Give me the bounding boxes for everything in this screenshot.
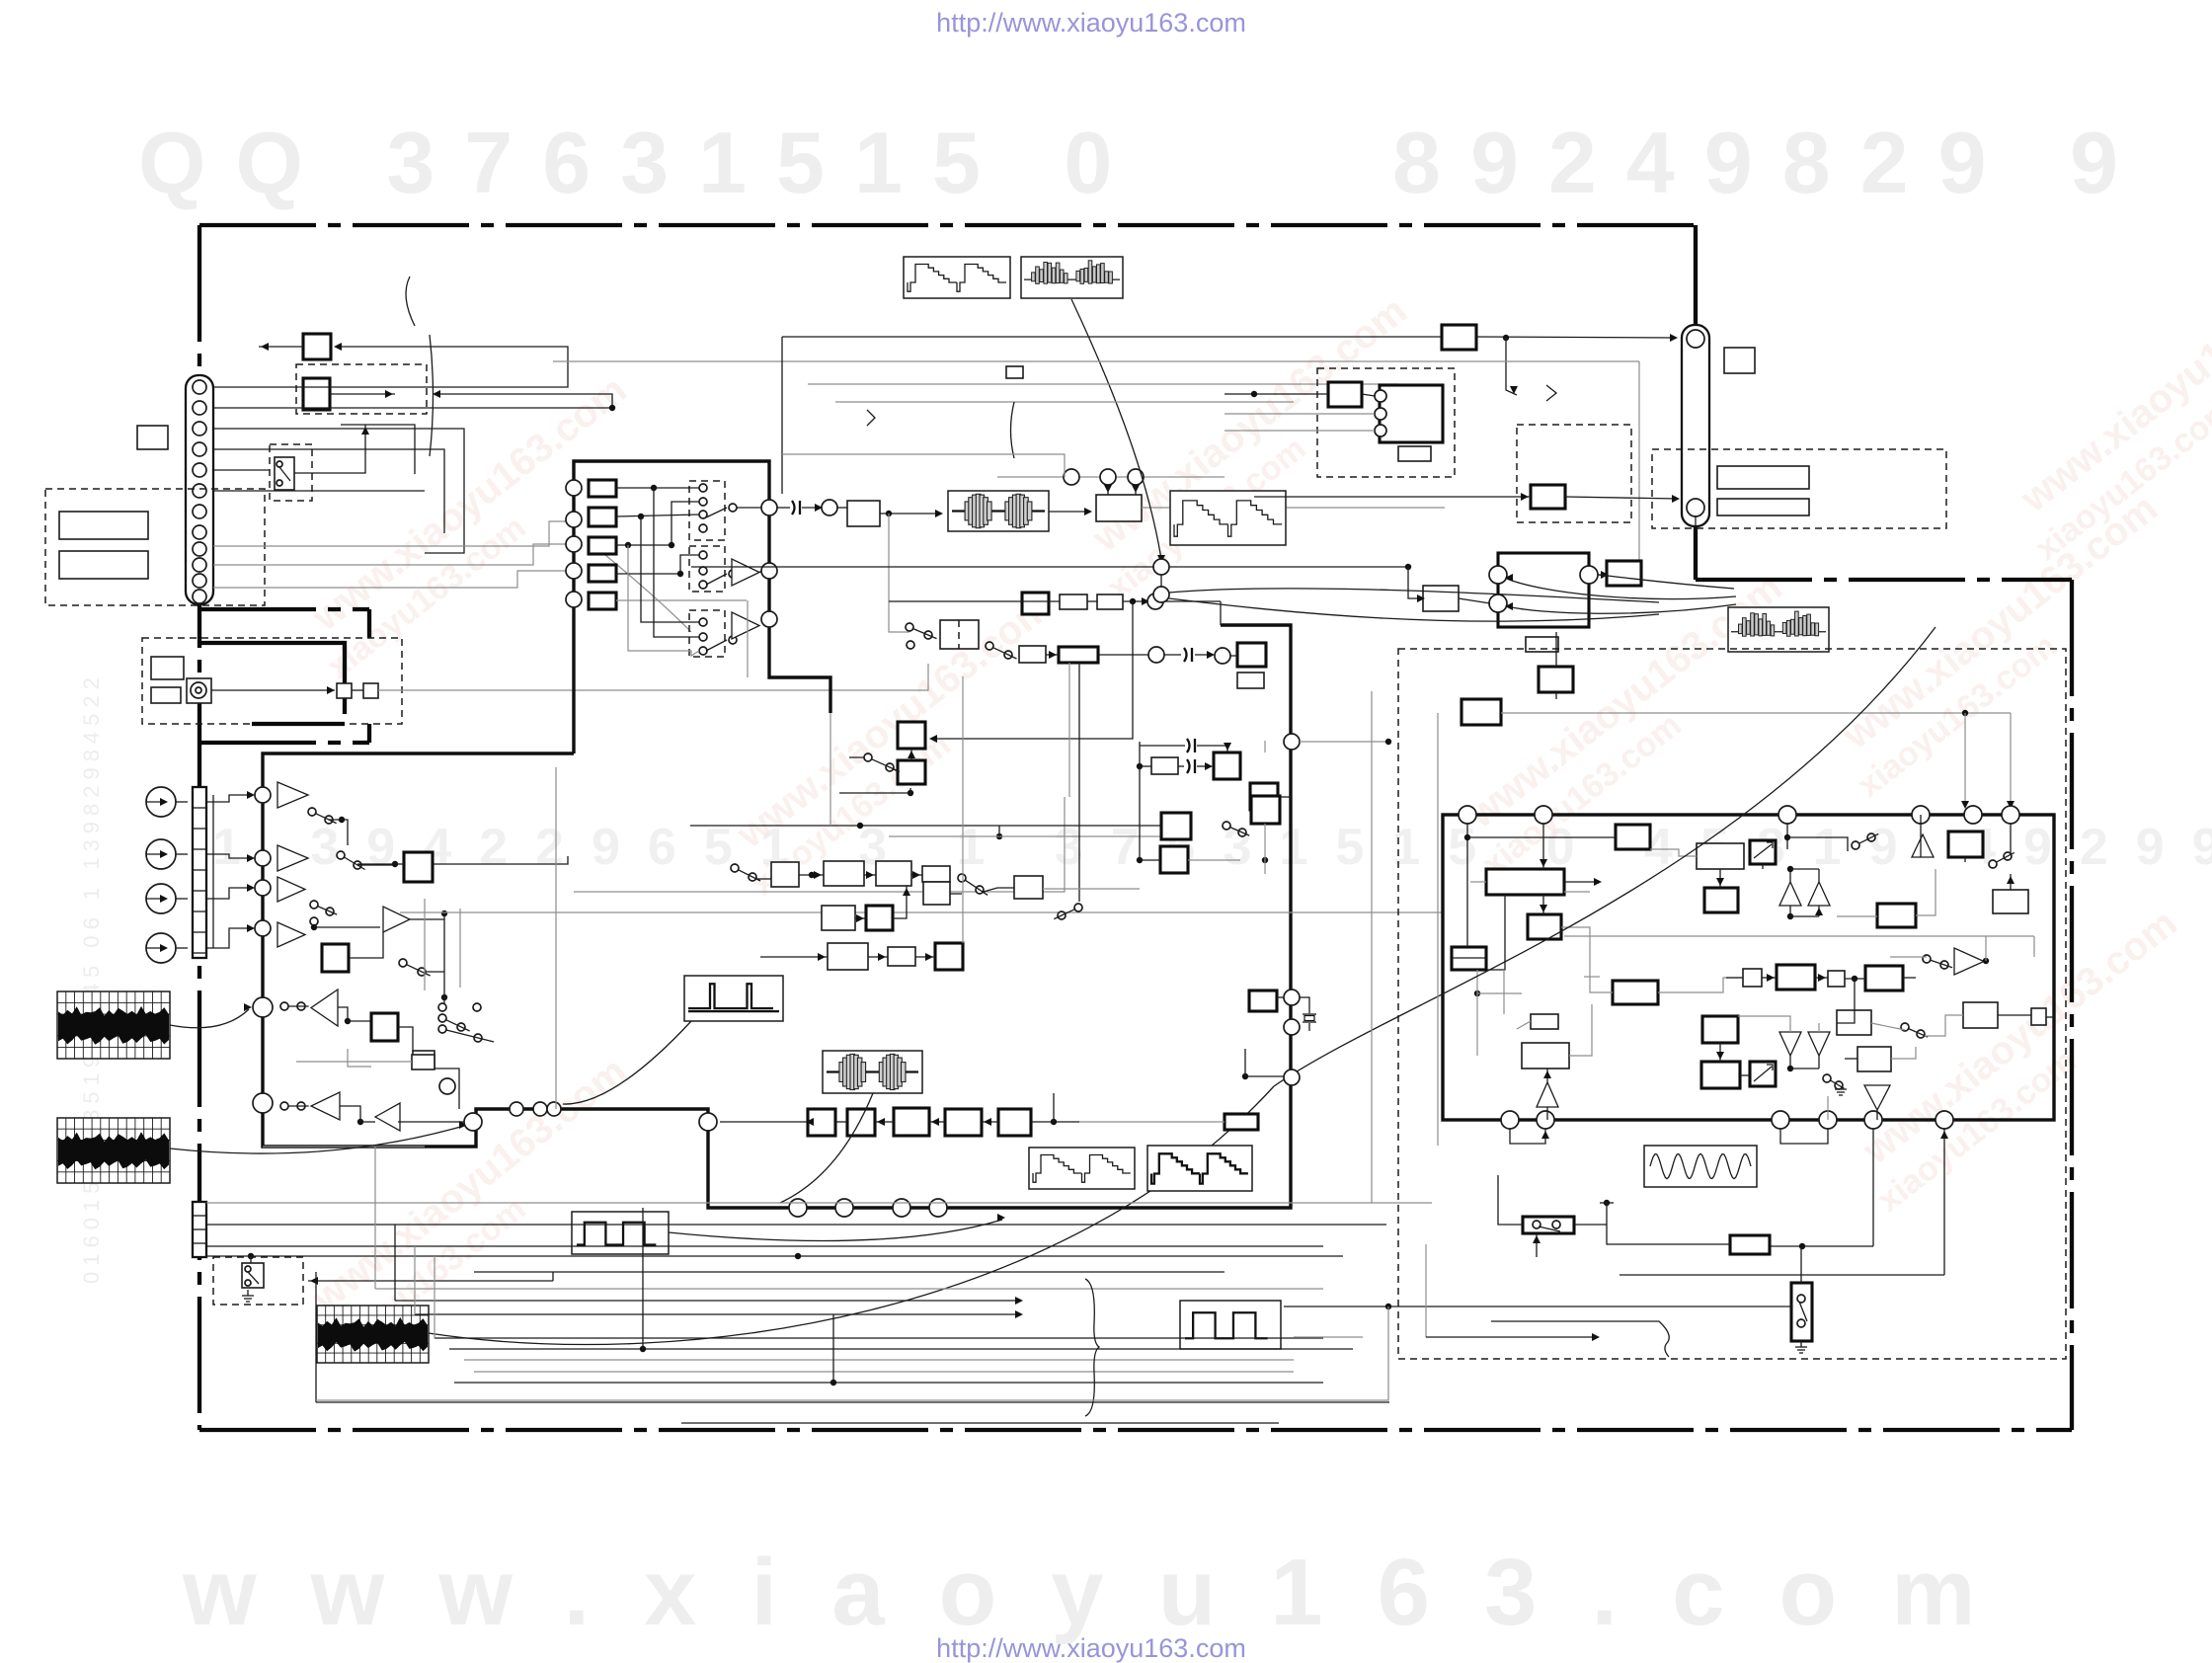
curve bundle into fb nodes [1169, 589, 1659, 602]
buffer up2 [1779, 882, 1801, 906]
IC U2 top pin x1810 [1778, 806, 1796, 824]
mark arrow top [867, 410, 875, 426]
block phase det [1452, 947, 1486, 970]
node P1 [566, 480, 582, 496]
connector J1 pin 8 [193, 525, 206, 539]
block sync gen [1486, 869, 1564, 895]
wire servo y1354 [1426, 1336, 1598, 1338]
mech boundary bottom [199, 741, 369, 745]
IC U2 bottom pin x1851 [1819, 1111, 1837, 1129]
wire P1 [616, 487, 699, 489]
wire top y407 [835, 401, 1294, 403]
wire P3 down [628, 545, 699, 656]
switch SW-D [864, 753, 872, 761]
bus line y1420 [316, 1401, 1389, 1403]
switch G1 arm [706, 508, 727, 517]
block comb sub [1398, 446, 1431, 461]
dashed switch group 2 [689, 546, 725, 592]
node comb 3 [1375, 425, 1386, 436]
block emph [866, 906, 893, 930]
input jack J4 [146, 839, 176, 869]
wire switch to tri [1890, 956, 1927, 958]
connector bar CN2 [193, 787, 206, 958]
block in-5 [589, 593, 616, 609]
bus line y1331 [415, 1313, 1021, 1315]
bus line y1400 [454, 1382, 1323, 1384]
waveform box W4 [1728, 607, 1829, 652]
connector J1 pin 7 [193, 505, 206, 518]
filter chain row2 [822, 906, 855, 930]
switch SW-J [1923, 955, 1931, 963]
dashed box mechanism [142, 638, 402, 724]
wire gray long y903 [574, 797, 1065, 892]
block out2 [1993, 890, 2028, 913]
leader T2 [780, 1093, 873, 1203]
connector J1 pin 5 [193, 463, 206, 477]
switch arm v [1799, 1302, 1807, 1321]
wire loop top [782, 454, 1065, 477]
switch SW-F [958, 874, 966, 882]
block f1 [808, 1109, 835, 1136]
node bus c950 [929, 1199, 947, 1217]
wire drop [1506, 338, 1517, 395]
block in-4 [589, 565, 616, 582]
switch box servo [1523, 1217, 1574, 1233]
block chroma out [1531, 485, 1565, 509]
block tuner bar1 [59, 512, 148, 539]
node fb2 [1153, 559, 1169, 575]
block f4 [945, 1109, 982, 1136]
block Y out [1442, 325, 1476, 350]
sine waveform box W7 [1644, 1146, 1757, 1187]
switch arm servo [1539, 1227, 1560, 1231]
bus line y1218 [206, 1202, 1432, 1204]
input jack J6 [146, 933, 176, 963]
wire mech out [378, 664, 928, 690]
block sensor [151, 687, 181, 703]
leader arc into S1 [589, 541, 691, 632]
block FM demod [371, 1013, 398, 1041]
switch SW-L [1852, 841, 1859, 849]
buffer down3 [1864, 1085, 1890, 1110]
IC U2 top pin x1563 [1535, 806, 1552, 824]
wire top y366 [553, 360, 1639, 362]
contact G1-521 [699, 511, 707, 518]
wire top y389 [808, 383, 1398, 385]
wire Q1 cap [777, 507, 790, 509]
block AFC [898, 760, 925, 784]
switch G2 arm [706, 574, 727, 585]
dashed box servo outer [1398, 649, 2066, 1359]
waveform box W1 [904, 257, 1010, 298]
op-amp A4 [277, 922, 305, 947]
wire B out [330, 393, 395, 395]
switch block vertical [1791, 1283, 1812, 1341]
block g2 [1777, 965, 1815, 990]
node osc3 [1284, 1069, 1300, 1085]
dashed box switch S1 [270, 444, 312, 501]
wire afc tap [839, 792, 910, 794]
IC U2 top pin x1945 [1912, 806, 1930, 824]
crystal X1 [1303, 1014, 1316, 1022]
switch SW-B2 [438, 1014, 446, 1022]
block VXO [1250, 783, 1278, 810]
bracket arc [406, 277, 415, 326]
pulse waveform box P1 [684, 976, 783, 1021]
node Q4 [822, 500, 837, 515]
block xtal flt [923, 882, 950, 905]
wire P1 down [654, 488, 699, 637]
switch S1 body [275, 457, 294, 490]
input jack J3 [146, 787, 176, 817]
block tuner bar2 [59, 551, 148, 579]
block lim [1237, 643, 1266, 667]
wire syncsep [349, 932, 383, 958]
block comp1 [1616, 825, 1650, 849]
switch SW-A5 [280, 1002, 288, 1010]
block APC [898, 722, 925, 749]
wire eq top loop [1220, 601, 1222, 625]
wire demod out [398, 1027, 413, 1051]
node R1 [1064, 469, 1079, 485]
wire capstan [211, 689, 335, 691]
node bus in 3 [255, 880, 271, 896]
op-amp A8 [383, 907, 410, 932]
wire sw1 [329, 820, 348, 845]
block in-2 [589, 508, 616, 526]
connector J2 body [1682, 325, 1709, 526]
boundary right [2070, 580, 2074, 1430]
block ref right [1724, 348, 1755, 373]
wire jack y910 [206, 888, 253, 899]
contact G2 out [729, 570, 737, 578]
node P2 [566, 512, 582, 527]
op-amp A7 [375, 1103, 400, 1131]
block delay2 [1097, 594, 1123, 609]
dashed box video out [1652, 449, 1946, 528]
contact G1 out [729, 504, 737, 512]
mark gt [1546, 385, 1556, 401]
contact B4 [438, 1003, 446, 1011]
watermark pink [289, 367, 663, 685]
bus line y1389 [474, 1371, 1294, 1373]
wire servo link [1300, 741, 1388, 743]
mech boundary top [199, 607, 369, 611]
block chroma amp [1251, 796, 1280, 824]
IC U2 bottom pin x1897 [1864, 1111, 1882, 1129]
contact C2 [907, 641, 914, 649]
block j1 [1702, 1016, 1738, 1043]
block f5 [998, 1109, 1031, 1136]
dashed switch group 3 [689, 610, 725, 657]
node Q2 [761, 563, 777, 579]
node L1 [439, 1078, 455, 1094]
bus line y1377 [464, 1359, 1294, 1361]
switch G3 arm [706, 640, 727, 651]
svg-text:1 394229651 3 1 37631515 0 458: 1 394229651 3 1 37631515 0 45819 49299 [212, 819, 2212, 876]
wire tap down [889, 514, 909, 632]
block head amp B [303, 378, 330, 410]
block eq2 [1059, 647, 1098, 663]
wire top vert x792 [781, 337, 783, 494]
node AF in2 [1489, 594, 1507, 612]
block video out bar2 [1717, 499, 1809, 515]
connector J1 pin 10 [193, 558, 206, 572]
svg-text:www.xiaoyu163.com: www.xiaoyu163.com [182, 1540, 2029, 1645]
wire v430 [424, 899, 426, 990]
block mix [935, 943, 963, 970]
dashed switch group 1 [689, 481, 725, 540]
wire main bus y836 [690, 825, 1161, 827]
block mon [412, 1055, 434, 1069]
node bus in 2 [255, 850, 271, 866]
IC U2 bottom pin x1529 [1501, 1111, 1519, 1129]
contact B5 [473, 1003, 481, 1011]
wire P5 [616, 599, 747, 601]
wire A7 out [398, 1121, 464, 1123]
connector J1 pin 6 [193, 484, 206, 498]
block out1 [1948, 831, 1983, 857]
wire top bus y609 [889, 600, 1060, 602]
wire conn to S1 [213, 469, 270, 471]
block video out bar1 [1717, 466, 1809, 489]
waveform box W5 [1029, 1148, 1135, 1189]
wire chroma in [1254, 496, 1531, 498]
node L2 [464, 1113, 482, 1131]
node bus b3 [547, 1102, 561, 1116]
wire jack y812 [206, 795, 253, 802]
wire main bus y847 [889, 835, 1161, 837]
wire swB [425, 971, 444, 973]
connector J1 pin 3 [193, 422, 206, 436]
leader N3 [429, 1086, 1274, 1344]
block f2 [847, 1109, 875, 1136]
wire v466 [459, 909, 461, 988]
switch SW-C2 [986, 642, 993, 650]
node R3 [1128, 469, 1144, 485]
wire row3 in [760, 956, 828, 958]
block xo amp [1249, 990, 1277, 1011]
boundary bottom [199, 1428, 2072, 1432]
ground S2 [242, 1290, 254, 1302]
wire burst in [1555, 632, 1557, 667]
block divider [1528, 914, 1561, 939]
waveform box W3 [1170, 491, 1286, 545]
wire guides [352, 689, 363, 691]
wire vert x1389 [1371, 691, 1373, 1203]
connector J1 pin 4 [193, 442, 206, 456]
node fb3 [1153, 587, 1169, 602]
rotary transformer T2 [823, 1051, 922, 1093]
node AF out [1580, 566, 1598, 584]
connector bar CN3 [193, 1202, 206, 1257]
mech boundary drop2 [367, 724, 371, 743]
op-amp A5 [311, 990, 338, 1026]
filter chain row1 [771, 862, 799, 887]
wire chroma to J2 [1565, 497, 1678, 499]
wire P3b [671, 502, 699, 545]
waveform box W6 [1147, 1146, 1252, 1191]
block h4 [1857, 1047, 1891, 1071]
boundary right upper [1694, 225, 1698, 326]
tee mark [1600, 1202, 1614, 1204]
dashed box Y/C [1317, 368, 1455, 477]
block delay1 [1060, 594, 1087, 609]
block BPF [824, 861, 864, 886]
wire playback r [1142, 507, 1445, 509]
dashed box tuner [45, 489, 265, 605]
block lim2 [1237, 673, 1264, 688]
wire S1 up [294, 425, 365, 473]
node osc2 [1284, 1019, 1300, 1035]
switch SW-I [1989, 860, 1997, 868]
buffer T-G2 [732, 559, 759, 586]
switch SW-K [1901, 1023, 1909, 1031]
varactor box 2 [1750, 1062, 1776, 1086]
wire conn r1 [213, 521, 567, 546]
wire shadow [263, 1146, 425, 1148]
wire AGC in [357, 863, 404, 865]
wire conn r3 [213, 571, 567, 588]
wire x757 [747, 600, 749, 677]
bus line y1366 [449, 1348, 1353, 1350]
node bus c808 [789, 1199, 807, 1217]
wire loop b [213, 429, 464, 553]
switch SW-A3 [310, 901, 318, 909]
block g1 [1743, 969, 1762, 987]
block g3 [1828, 971, 1845, 987]
switch SW-B1 [399, 959, 407, 967]
svg-text:QQ 37631515 0: QQ 37631515 0 [138, 114, 1142, 211]
upper switch IC box [574, 461, 830, 753]
block REC amp [847, 501, 880, 526]
bus line y1288 [474, 1271, 1224, 1273]
node AF in1 [1489, 566, 1507, 584]
ground servo [1795, 1341, 1807, 1353]
svg-text:http://www.xiaoyu163.com: http://www.xiaoyu163.com [936, 8, 1246, 38]
block ACC [1461, 699, 1501, 725]
boundary top [199, 223, 1696, 227]
node bus in 4 [255, 920, 271, 936]
wire servo y1323 [1284, 1306, 1791, 1307]
leader N2 [170, 1126, 464, 1153]
wire drop2 [1964, 713, 1966, 807]
tape path thick [199, 643, 345, 714]
bracket big paren [430, 335, 434, 456]
switch S2 body [242, 1263, 264, 1288]
node eq2 [1215, 648, 1230, 664]
capacitor C1 [1140, 745, 1185, 747]
wire loop d [213, 490, 425, 492]
bracket paren top [1011, 402, 1015, 458]
block pll [1224, 1114, 1258, 1130]
switch SW-A2 [337, 851, 345, 859]
boundary left [197, 225, 201, 1430]
connector J1 pin 12 [193, 590, 206, 603]
wire x841 down [829, 713, 831, 826]
node comb 1 [1375, 390, 1386, 402]
connector J1 pin 9 [193, 542, 206, 556]
wire fb [931, 601, 1133, 739]
wire conn to blockA [213, 347, 568, 387]
node Q3 [761, 611, 777, 627]
node comb 2 [1375, 408, 1386, 420]
connector J2 pin 2 [1687, 499, 1704, 516]
buffer T-G3 [732, 612, 759, 639]
dashed box B [296, 364, 427, 414]
wire comb in [1224, 393, 1328, 395]
block in-3 [589, 537, 616, 554]
wire comb in3 [1224, 430, 1375, 432]
paren bottom right [1491, 1321, 1669, 1357]
contact G1-494 [699, 484, 707, 492]
contact G3-645 [699, 633, 707, 641]
block deemph [413, 1051, 434, 1069]
block AF amp [1607, 561, 1641, 586]
wire jack chain [212, 795, 214, 948]
IC U2 bottom pin x1565 [1537, 1111, 1554, 1129]
block servo amp [1730, 1235, 1770, 1254]
wire jack y865 [206, 854, 253, 858]
block dropout [1022, 593, 1049, 614]
buffer right [1954, 948, 1984, 975]
dashed box chroma [1517, 425, 1631, 522]
leader from W2 [1071, 299, 1161, 559]
IC U2 top pin x2036 [2002, 806, 2019, 824]
block guide L [337, 683, 352, 698]
block killer [1161, 813, 1191, 839]
wire y483 pins [997, 476, 1224, 478]
block vco2 [1613, 981, 1658, 1004]
dashed box power switch [213, 1257, 303, 1305]
node R2 [1100, 469, 1116, 485]
block tiny ref [1006, 366, 1023, 378]
node bus in 6 [253, 1093, 273, 1113]
block guide R [363, 683, 378, 698]
oscillogram N2 [57, 1118, 170, 1183]
block vco [1014, 876, 1043, 899]
connector J1 body [186, 375, 213, 604]
watermark pink [1069, 288, 1443, 606]
svg-text:89249829 9: 89249829 9 [1392, 114, 2148, 211]
wire conn r2 [213, 544, 567, 565]
square wave box Q1 [572, 1212, 669, 1254]
op-amp A6 [311, 1092, 340, 1120]
boundary right upper 2 [1694, 526, 1698, 580]
block head amp A [303, 334, 331, 359]
wire loop c [213, 449, 444, 533]
IC U2 inner wires [1466, 824, 1468, 947]
IC U2 body [1443, 815, 2054, 1120]
contact A4 [310, 917, 318, 925]
wire sw feed [308, 1280, 553, 1282]
connector J1 pin 1 [193, 380, 206, 394]
switch SW-E [731, 864, 739, 872]
block Y/C in [1328, 382, 1362, 407]
wire audio bus [691, 566, 1408, 568]
switch SW-M [1823, 1074, 1831, 1082]
wire loop a [341, 425, 415, 474]
watermark pink [1820, 486, 2193, 804]
wire deemph out [434, 1069, 459, 1109]
wire mon [296, 1061, 412, 1063]
node P4 [566, 563, 582, 579]
block counter [1522, 1043, 1569, 1069]
wire demod link [348, 1049, 371, 1067]
node eq [1148, 647, 1164, 663]
block cassette lamp [151, 657, 184, 679]
block audio FM big [1498, 553, 1589, 627]
